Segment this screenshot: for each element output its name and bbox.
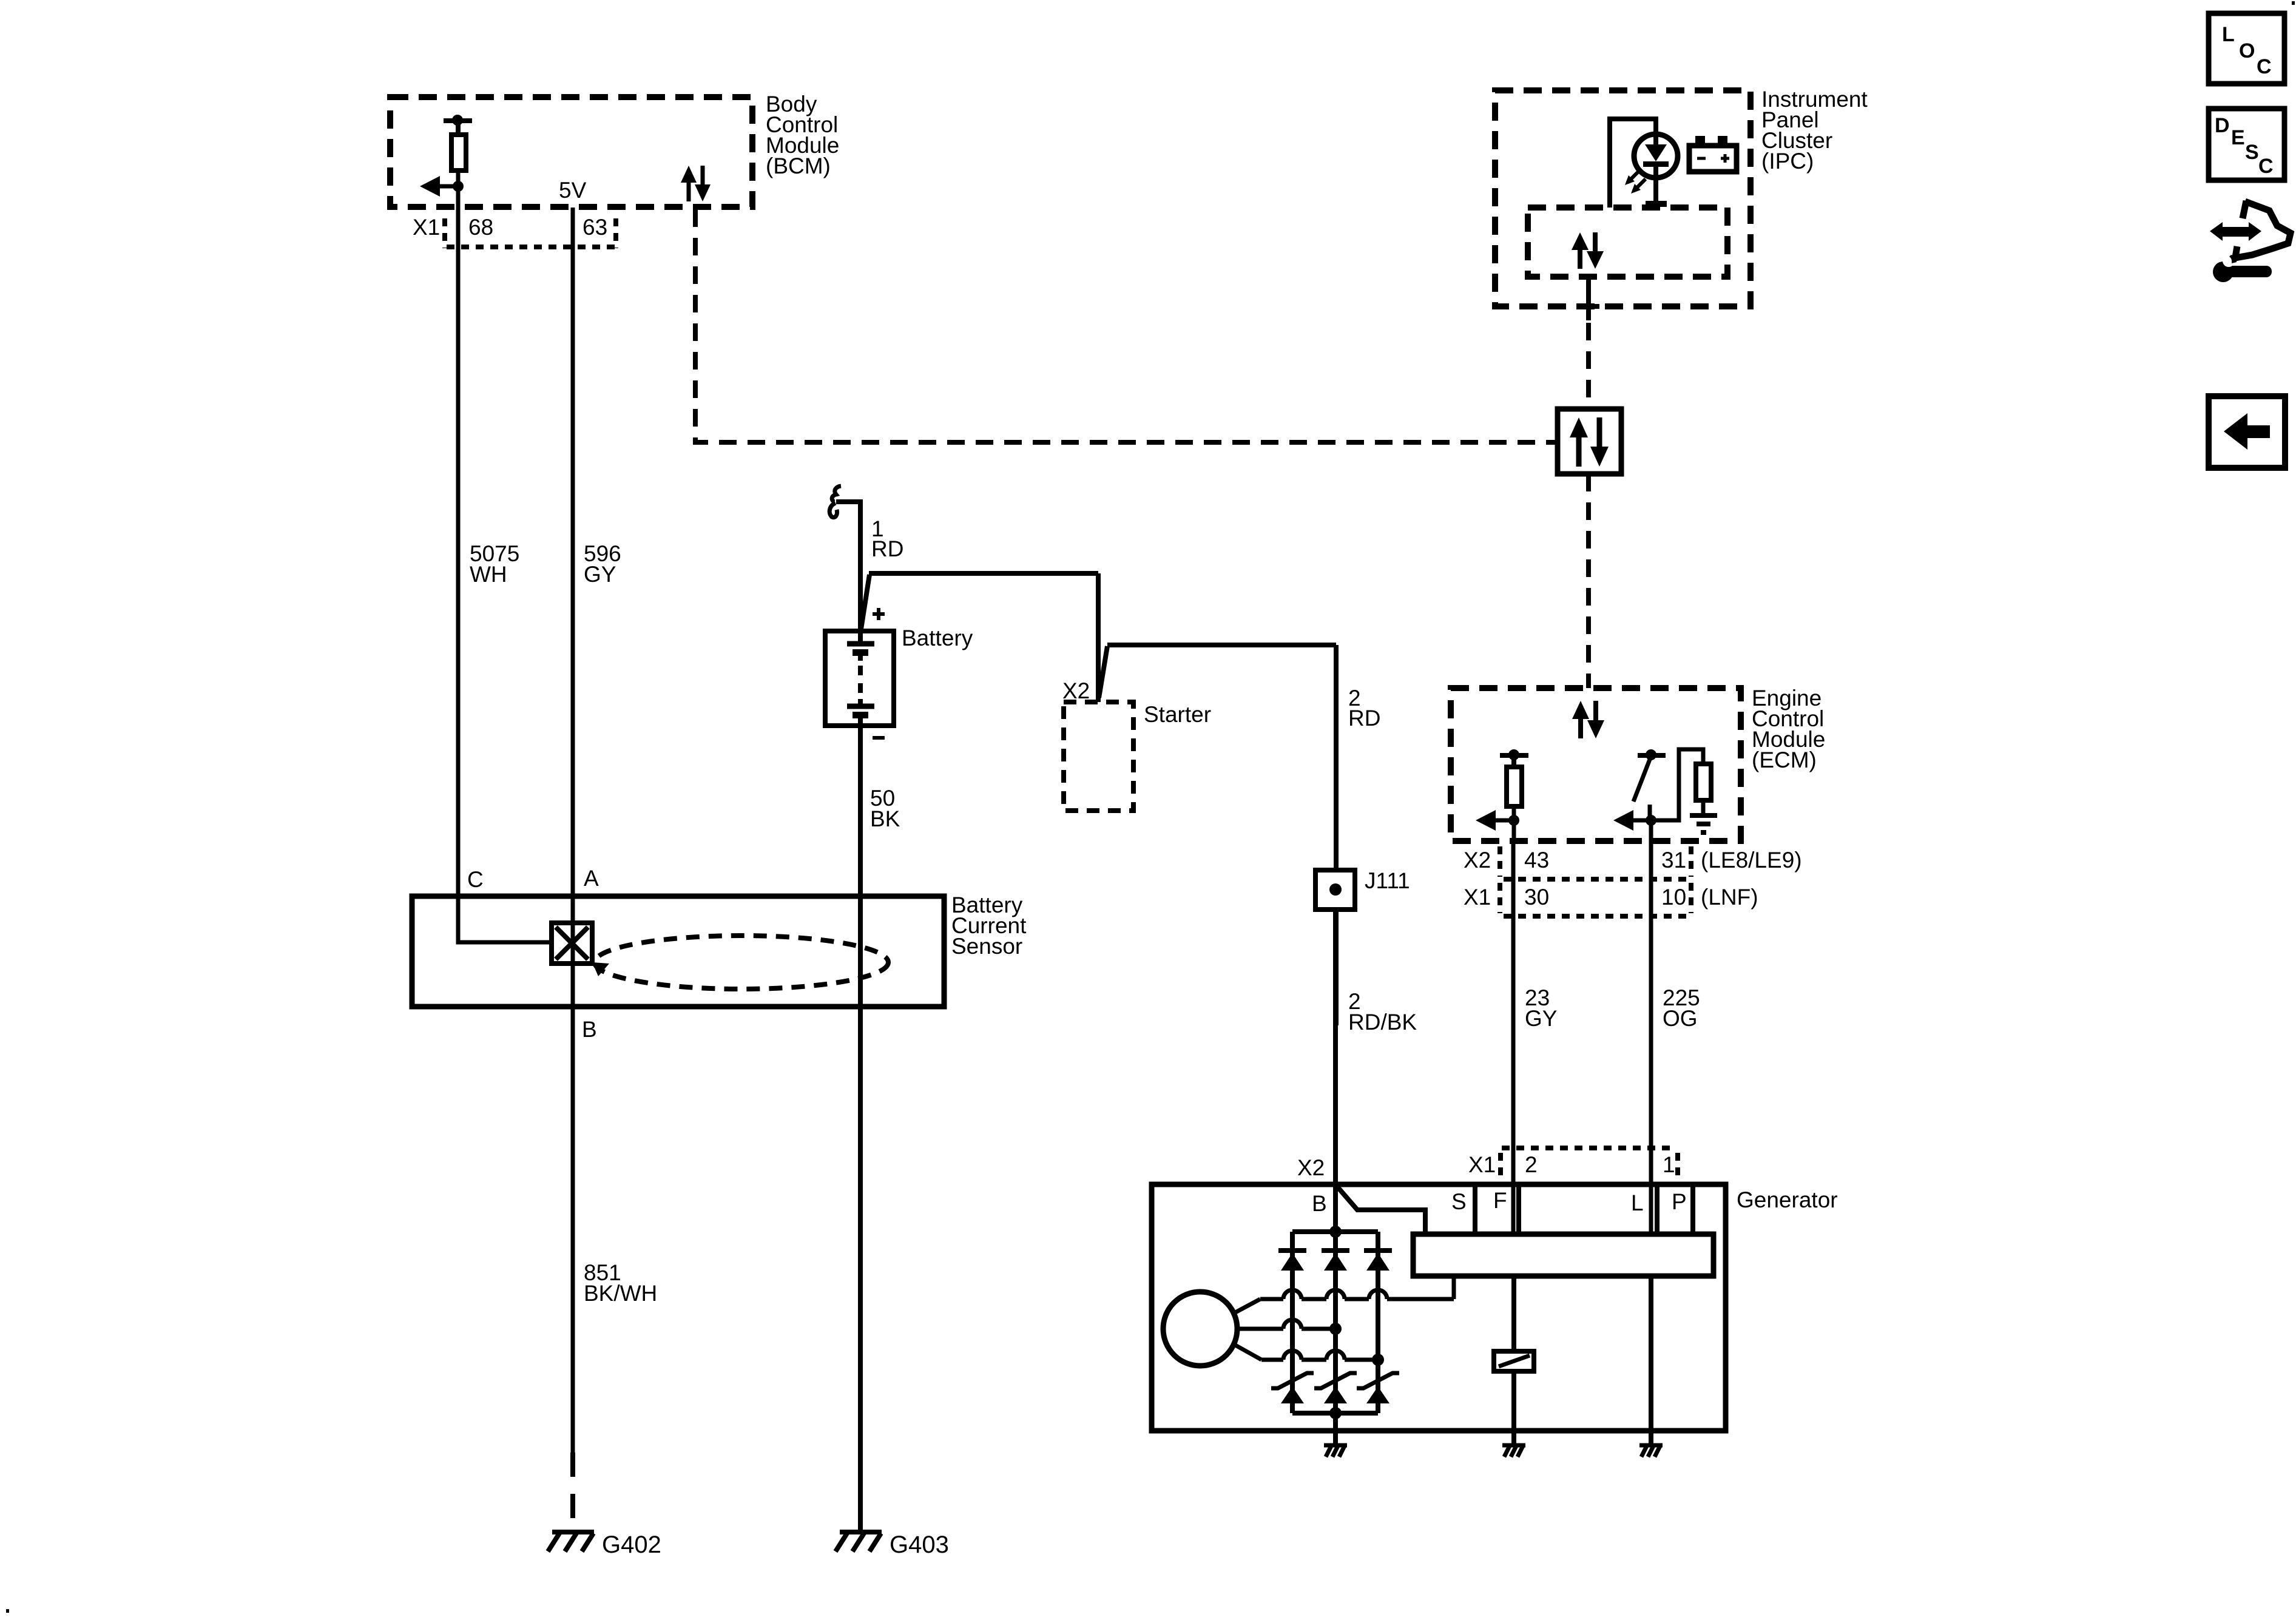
diode rectifier bridge: top bus bbox=[1292, 1229, 1378, 1234]
IPC pin stub with terminal bar bbox=[1586, 277, 1591, 320]
wire 2 RD/BK below J111 bbox=[1334, 910, 1339, 1025]
svg-text:A: A bbox=[584, 866, 599, 891]
svg-text:S: S bbox=[1451, 1189, 1467, 1214]
svg-text:31: 31 bbox=[1661, 848, 1686, 873]
battery plus label bbox=[873, 612, 885, 616]
svg-text:(LE8/LE9): (LE8/LE9) bbox=[1701, 848, 1802, 873]
rectifier diodes (top row) bbox=[1278, 1248, 1306, 1253]
wire 5075 WH (BCM X1-68 to sensor C) bbox=[456, 207, 461, 897]
signal arrow (ECM left) bbox=[1476, 810, 1496, 831]
charge indicator LED circle bbox=[1634, 134, 1678, 178]
generator connector X1 pins 2, 1 bbox=[1502, 1146, 1676, 1150]
wire LED cathode to inner box with terminal bar bbox=[1653, 177, 1658, 205]
battery cell plates top bbox=[858, 631, 863, 642]
ground G402 bbox=[552, 1530, 594, 1534]
svg-text:F: F bbox=[1493, 1188, 1507, 1213]
wire to internal resistor 2 bbox=[1651, 749, 1703, 820]
wire 1 RD into starter with angled tap to J111 branch bbox=[1096, 573, 1101, 702]
junction dot ECM left bbox=[1508, 815, 1519, 826]
svg-text:E: E bbox=[2231, 126, 2245, 149]
ground (generator B) bbox=[1324, 1443, 1347, 1448]
stator winding circle bbox=[1163, 1292, 1237, 1366]
serial data link box (up/down arrows) bbox=[1558, 409, 1621, 474]
svg-text:X1: X1 bbox=[1468, 1152, 1496, 1177]
wire 1 RD branch to starter/J111 with angled tap bbox=[869, 571, 1098, 576]
up/down serial data arrows inside BCM bbox=[687, 180, 691, 201]
wire pin 31 through ECM edge bbox=[1649, 820, 1653, 841]
resistor 2 (ECM internal) bbox=[1696, 764, 1711, 800]
battery internal dashed link bbox=[858, 666, 863, 695]
wire 2 RD (to J111) bbox=[1334, 645, 1339, 870]
svg-text:G403: G403 bbox=[890, 1531, 949, 1558]
svg-text:L: L bbox=[2222, 23, 2235, 46]
starter dashed box bbox=[1064, 702, 1133, 811]
svg-text:D: D bbox=[2215, 114, 2230, 137]
wire F below regulator bbox=[1511, 1276, 1516, 1351]
svg-text:O: O bbox=[2239, 39, 2255, 62]
wire 225 OG (ECM 31/10 to generator L) bbox=[1649, 841, 1653, 1184]
svg-text:RD: RD bbox=[871, 536, 903, 561]
up/down serial data arrows inside IPC bbox=[1578, 248, 1582, 269]
module Generator box bbox=[1152, 1184, 1726, 1431]
stator phase C wire bbox=[1235, 1345, 1261, 1360]
svg-text:OG: OG bbox=[1663, 1006, 1698, 1031]
dashed sensing loop ellipse bbox=[595, 936, 888, 989]
splice J111 bbox=[1315, 870, 1355, 910]
wire 225 OG into L pin down to regulator bbox=[1649, 1184, 1653, 1238]
svg-text:X2: X2 bbox=[1464, 848, 1491, 873]
svg-text:63: 63 bbox=[582, 215, 607, 240]
svg-text:GY: GY bbox=[584, 562, 616, 587]
dashed wire tail to G402 bbox=[570, 1453, 575, 1532]
module Instrument Panel Cluster (IPC) dashed box bbox=[1495, 90, 1751, 306]
rectifier diodes (bottom row, avalanche) bbox=[1271, 1373, 1314, 1388]
svg-text:(IPC): (IPC) bbox=[1761, 149, 1814, 174]
ground (generator F) bbox=[1502, 1443, 1525, 1448]
field winding symbol on F line bbox=[1494, 1351, 1534, 1371]
svg-text:C: C bbox=[2258, 155, 2274, 178]
resistor R (BCM internal pull-up) with terminal bbox=[444, 118, 472, 123]
svg-text:Sensor: Sensor bbox=[951, 934, 1022, 959]
ground stub L bbox=[1649, 1431, 1653, 1445]
icon connector-view (double arrow, connector outline, wrench) bbox=[2210, 201, 2291, 282]
icon LOC box bbox=[2209, 13, 2284, 84]
svg-text:Battery: Battery bbox=[902, 626, 973, 650]
wire 23 GY into F pin down to regulator bbox=[1511, 1184, 1516, 1238]
voltage regulator block bbox=[1413, 1234, 1714, 1276]
ground stub F bbox=[1511, 1431, 1516, 1445]
svg-text:(ECM): (ECM) bbox=[1752, 748, 1817, 772]
svg-text:68: 68 bbox=[468, 215, 493, 240]
svg-text:RD/BK: RD/BK bbox=[1348, 1010, 1417, 1035]
svg-text:S: S bbox=[2245, 141, 2259, 164]
icon DESC box bbox=[2209, 109, 2284, 180]
Battery Current Sensor box bbox=[412, 896, 944, 1007]
ECM internal resistor branch (pin 43/30) terminal bbox=[1500, 753, 1528, 758]
sensor internal wire C to element bbox=[458, 896, 552, 942]
off-page hook connector (battery positive feed) bbox=[832, 486, 841, 502]
svg-text:X2: X2 bbox=[1297, 1155, 1325, 1180]
wire L below regulator bbox=[1649, 1276, 1653, 1431]
generator pin tab partitions bbox=[1473, 1184, 1477, 1234]
dashed serial data wire IPC to splice block bbox=[1586, 323, 1591, 409]
svg-text:(LNF): (LNF) bbox=[1701, 885, 1758, 910]
svg-text:X1: X1 bbox=[1464, 885, 1491, 910]
svg-text:C: C bbox=[2257, 55, 2272, 78]
resistor (ECM internal) bbox=[1507, 767, 1522, 806]
svg-text:J111: J111 bbox=[1365, 868, 1410, 893]
svg-text:Starter: Starter bbox=[1144, 702, 1211, 727]
wire 50 BK battery negative bbox=[858, 717, 863, 1531]
svg-text:X2: X2 bbox=[1062, 678, 1090, 703]
svg-text:43: 43 bbox=[1524, 848, 1549, 873]
sensor element (crossed square) bbox=[552, 923, 592, 964]
IPC inner dashed box bbox=[1528, 208, 1727, 277]
junction dot ECM right bbox=[1646, 815, 1656, 826]
switch blade bbox=[1633, 758, 1650, 802]
wire 2 RD/BK continues: J111 to generator B pin bbox=[1333, 910, 1338, 1232]
svg-text:B: B bbox=[582, 1017, 597, 1042]
module Body Control Module (BCM) dashed box bbox=[390, 97, 752, 207]
svg-text:RD: RD bbox=[1348, 706, 1380, 731]
svg-text:2: 2 bbox=[1525, 1152, 1538, 1177]
dashed serial data wire BCM to splice block bbox=[695, 209, 1558, 442]
svg-text:30: 30 bbox=[1524, 885, 1549, 910]
module Engine Control Module (ECM) dashed box bbox=[1451, 688, 1741, 841]
svg-text:P: P bbox=[1672, 1189, 1687, 1214]
ground (generator L) bbox=[1639, 1443, 1663, 1448]
LED light emission arrows bbox=[1627, 170, 1639, 183]
junction dot BCM bbox=[453, 181, 464, 192]
svg-text:X1: X1 bbox=[413, 215, 440, 240]
svg-text:5V: 5V bbox=[559, 178, 587, 203]
earth ground (ECM internal) bbox=[1690, 813, 1717, 818]
signal arrow (BCM output) bbox=[420, 176, 440, 197]
ground stub B bbox=[1333, 1431, 1338, 1445]
battery minus label bbox=[873, 736, 885, 740]
LED wire loop bbox=[1610, 119, 1656, 208]
page corner mark bbox=[6, 1609, 9, 1613]
loop arrowhead bbox=[592, 962, 609, 976]
battery box bbox=[825, 631, 894, 726]
icon back-arrow box bbox=[2209, 396, 2285, 468]
svg-text:1: 1 bbox=[1663, 1152, 1675, 1177]
stator phase B wire bbox=[1237, 1327, 1283, 1331]
dashed serial data wire to ECM bbox=[1586, 474, 1591, 688]
wire 23 GY (ECM 43/30 to generator F) bbox=[1511, 841, 1516, 1184]
svg-text:Generator: Generator bbox=[1737, 1187, 1838, 1212]
wire 596 GY (BCM X1-63 5V to sensor A) bbox=[571, 208, 575, 923]
LED diode triangle and cathode bar bbox=[1645, 144, 1667, 161]
svg-text:GY: GY bbox=[1525, 1006, 1557, 1031]
svg-text:BK: BK bbox=[870, 806, 900, 831]
stator phase A wire (to regulator) bbox=[1235, 1299, 1260, 1312]
svg-text:C: C bbox=[467, 867, 484, 892]
battery telltale icon bbox=[1689, 146, 1737, 172]
svg-text:G402: G402 bbox=[602, 1531, 661, 1558]
svg-text:B: B bbox=[1312, 1191, 1327, 1216]
wire A through element to B bbox=[571, 923, 575, 964]
ground G403 bbox=[840, 1530, 882, 1534]
svg-text:WH: WH bbox=[470, 562, 507, 587]
svg-text:L: L bbox=[1631, 1190, 1644, 1215]
wire B pin through bridge bbox=[1333, 1232, 1338, 1431]
bridge vertical legs bbox=[1290, 1232, 1295, 1413]
svg-text:(BCM): (BCM) bbox=[766, 154, 831, 178]
battery cell plates bottom bbox=[858, 699, 863, 704]
ECM internal switch branch (pin 31/10) terminal bbox=[1638, 753, 1666, 758]
wire 1 RD from hook bbox=[836, 502, 860, 641]
up/down serial data arrows inside ECM bbox=[1578, 717, 1583, 738]
svg-text:BK/WH: BK/WH bbox=[584, 1281, 657, 1306]
signal arrow (ECM right) bbox=[1613, 810, 1633, 831]
bridge bottom bus bbox=[1292, 1411, 1378, 1416]
svg-text:10: 10 bbox=[1661, 885, 1686, 910]
wire tap B to regulator bbox=[1338, 1187, 1425, 1234]
